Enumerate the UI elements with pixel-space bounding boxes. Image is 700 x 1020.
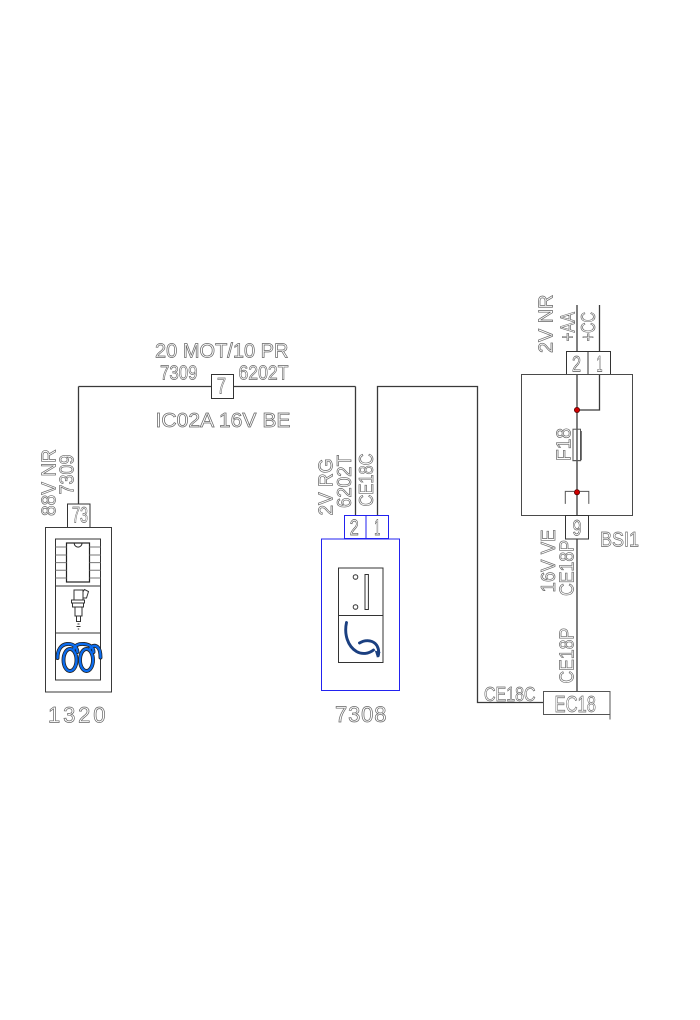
EC18 box edge tick (609, 715, 611, 720)
connector pin 1 box of 7308 (blue) (366, 516, 389, 539)
svg-text:9: 9 (573, 516, 582, 541)
connector pin 2 box of BSI1 (567, 352, 589, 375)
svg-text:1: 1 (597, 352, 603, 377)
icon injector tip (77, 616, 81, 622)
wire +CC into BSI pin 1 (599, 305, 601, 352)
svg-text:+CC: +CC (578, 312, 600, 342)
component 1320 inner icon box (56, 539, 101, 680)
svg-text:EC18: EC18 (555, 691, 597, 717)
icon IC chip pins left (56, 547, 67, 578)
connector pin 9 box of BSI1 (566, 516, 589, 540)
svg-text:1320: 1320 (48, 703, 108, 728)
svg-text:6202T: 6202T (239, 363, 289, 385)
icon lever arrowhead (375, 651, 381, 658)
icon switch contact circle top (353, 575, 358, 580)
svg-text:7308: 7308 (335, 702, 387, 727)
icon injector nozzle (75, 607, 82, 616)
fuse F18 body (573, 429, 581, 460)
icon switch bar (365, 575, 368, 610)
junction dot lower (red) (574, 490, 579, 495)
icon lever arrow (dark blue) main curve (346, 623, 374, 654)
svg-text:BSI1: BSI1 (600, 529, 639, 552)
svg-text:CE18P: CE18P (557, 540, 579, 596)
connector pin 1 box of BSI1 (588, 352, 611, 375)
svg-text:2V NR: 2V NR (536, 295, 558, 354)
icon coil (blue) outline underlay (58, 644, 101, 671)
svg-text:+AA: +AA (557, 311, 579, 341)
component 1320 injector outer box (46, 528, 112, 693)
junction dot upper (red) (574, 407, 579, 412)
internal connection brackets (565, 491, 589, 504)
component 7308 outer box (blue) (322, 539, 400, 691)
svg-text:CE18C: CE18C (484, 684, 536, 706)
icon IC chip notch (74, 543, 82, 547)
wire vertical drop to connector 73 (78, 387, 80, 505)
svg-text:IC02A 16V BE: IC02A 16V BE (156, 410, 291, 432)
svg-text:73: 73 (72, 503, 88, 528)
svg-text:2: 2 (572, 352, 581, 377)
wire 6202T vertical to pin 2 of 7308 (355, 387, 357, 516)
svg-text:6202T: 6202T (334, 455, 356, 508)
inner box divider (339, 615, 384, 617)
icon switch contact circle bottom (353, 605, 358, 610)
icon coil (blue) (58, 644, 101, 671)
cell divider lines (56, 586, 101, 633)
svg-text:CE18P: CE18P (557, 628, 579, 684)
icon IC chip pins right (90, 547, 101, 578)
svg-text:20 MOT/10 PR: 20 MOT/10 PR (155, 341, 289, 363)
component 7308 inner icon box (339, 568, 384, 663)
icon IC chip body (67, 543, 90, 582)
wire 2V NR into BSI pin 2 (576, 305, 578, 352)
component BSI1 box (522, 375, 633, 516)
wire CE18C from pin 1 of 7308 to splice EC18 (378, 387, 544, 703)
icon injector connector stub (83, 590, 89, 599)
wire internal BSI pin2 to pin9 through fuse (576, 375, 578, 516)
svg-text:1: 1 (374, 515, 380, 540)
connector pin 2 box of 7308 (blue) (345, 516, 367, 539)
svg-text:7309: 7309 (160, 363, 198, 385)
fuse F18 double edge (572, 431, 581, 461)
svg-text:7: 7 (217, 374, 226, 399)
icon injector spray dashes (77, 624, 81, 629)
splice EC18 box (544, 692, 611, 715)
icon injector collar (72, 600, 85, 603)
wire CE18P from BSI pin 9 down to EC18 (576, 539, 578, 692)
svg-text:CE18C: CE18C (356, 454, 378, 507)
wire main horizontal 7309 from node 7 to component 1320 (79, 386, 356, 388)
icon lever arrow hook (360, 641, 379, 656)
svg-text:F18: F18 (554, 428, 576, 461)
svg-text:2: 2 (350, 515, 359, 540)
icon injector body (74, 590, 83, 600)
connector pin 73 box of 1320 (68, 504, 91, 528)
wire internal BSI pin1 branch to junction (577, 375, 600, 411)
svg-text:7309: 7309 (57, 455, 79, 495)
node 7 junction box (212, 375, 234, 399)
icon injector collar 2 (73, 603, 84, 607)
